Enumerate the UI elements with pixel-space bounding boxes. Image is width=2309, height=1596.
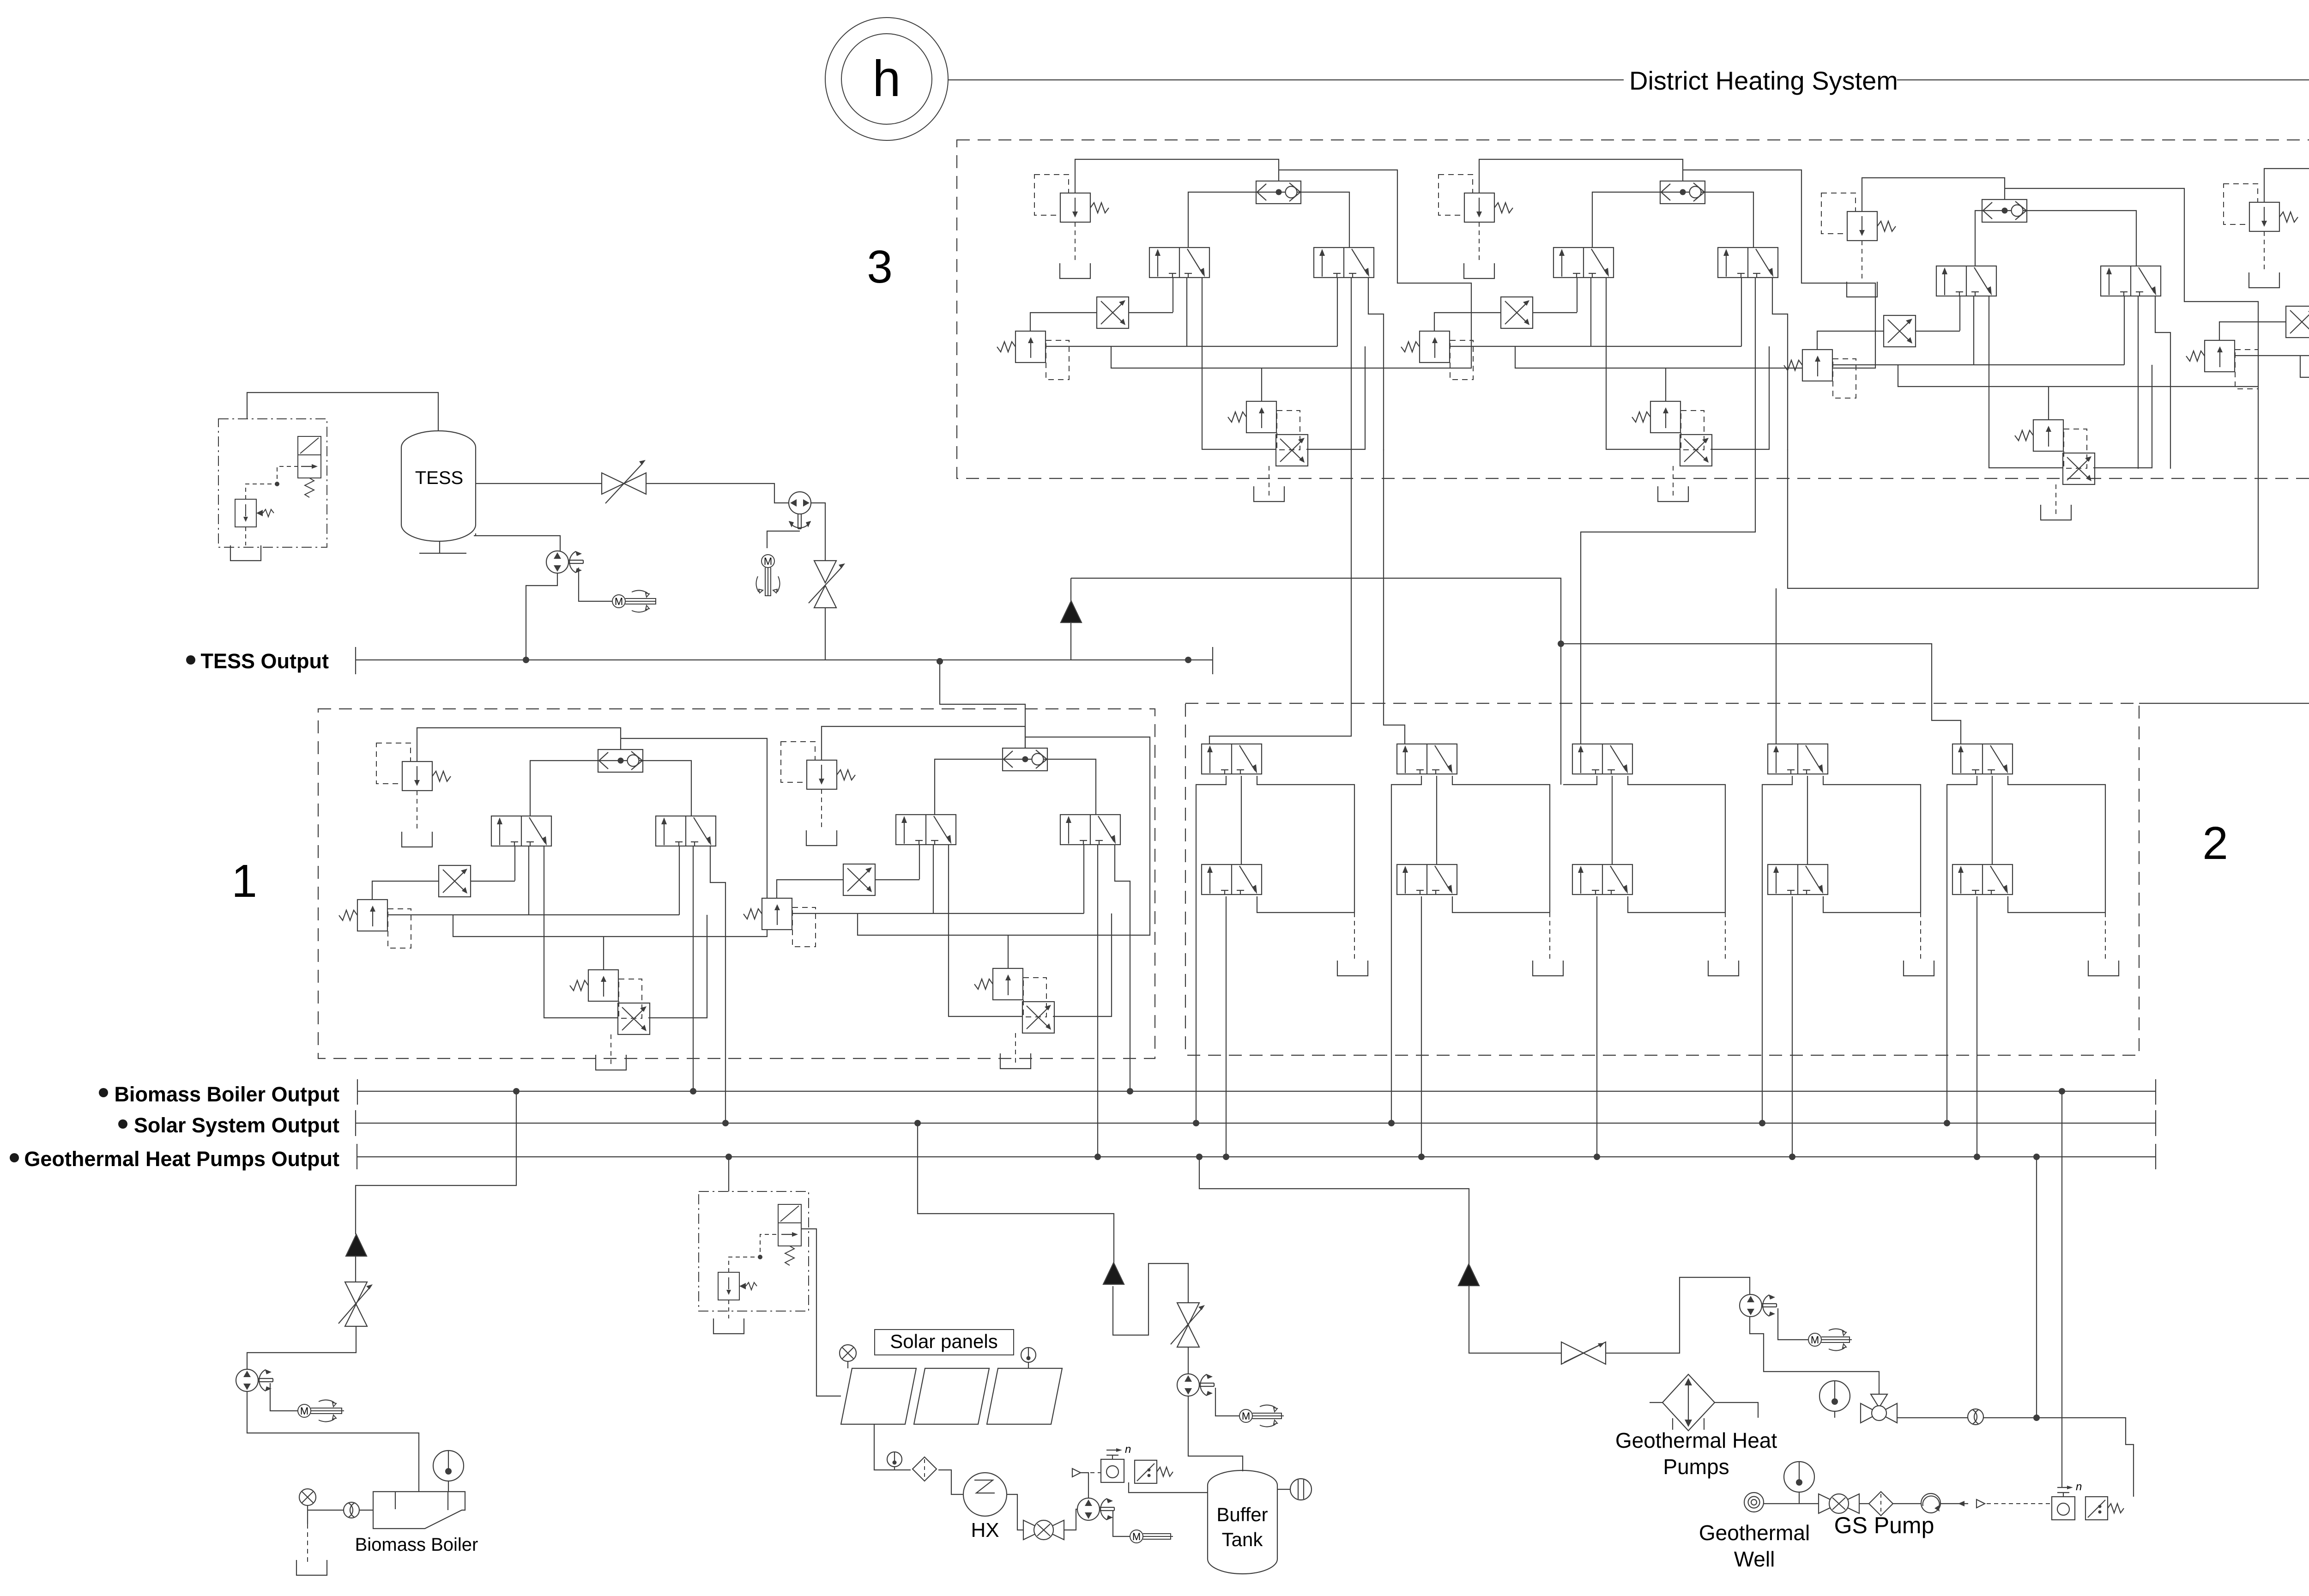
relief valve assembly TESS	[218, 419, 327, 561]
label Biomass Boiler Output	[99, 1088, 108, 1097]
filter GS	[1869, 1492, 1893, 1516]
subsystem box 1	[318, 709, 1155, 1058]
gauge geothermal well	[1784, 1462, 1814, 1492]
svg-text:2: 2	[2202, 817, 2228, 869]
check valve cluster 1.1	[417, 728, 621, 762]
wire biomass boiler output line	[357, 1079, 2156, 1105]
valve pair 2.4	[1768, 744, 1934, 1160]
valve cluster 1.2	[743, 742, 1130, 1069]
tank biomass drain	[307, 1510, 308, 1524]
svg-text:Tank: Tank	[1222, 1529, 1263, 1550]
subsystem box 2	[1185, 703, 2139, 1055]
wire triangle to geo throttle	[1469, 1286, 1561, 1353]
svg-text:Geothermal Heat: Geothermal Heat	[1615, 1428, 1777, 1452]
svg-text:Solar System Output: Solar System Output	[134, 1113, 339, 1137]
wire cluster 3.4 loop	[2300, 179, 2309, 377]
thermometer solar right	[1021, 1348, 1036, 1362]
wire pair2.2 left drop	[1391, 776, 1421, 1123]
wire cluster 1.2 loop	[858, 737, 1150, 935]
wire TESS feed line	[1071, 578, 1561, 785]
wire TESS assembly to TESS tank	[247, 393, 438, 431]
svg-text:TESS Output: TESS Output	[201, 649, 329, 673]
label TESS Output	[186, 655, 195, 665]
valve pair 2.1	[1202, 744, 1368, 1160]
heat exchanger HX	[963, 1473, 1007, 1542]
svg-text:HX: HX	[971, 1519, 999, 1542]
throttle valve TESS	[602, 460, 646, 503]
wire filter to GS pump	[1893, 1503, 1921, 1504]
label Geothermal Heat Pumps Output	[10, 1153, 19, 1162]
flow meter geothermal	[1968, 1409, 1983, 1425]
wire panels to HX	[874, 1424, 963, 1494]
motor M solar	[1113, 1510, 1130, 1536]
spring box GS	[2085, 1497, 2124, 1520]
pump biomass	[236, 1369, 273, 1391]
motor M biomass	[270, 1383, 298, 1411]
wire cluster3.4 drop to box2 corner	[2139, 467, 2309, 703]
pump geothermal	[1740, 1294, 1777, 1317]
wire pump to 3way valve	[1750, 1317, 1879, 1394]
wire pump to vertical throttle	[811, 503, 825, 561]
wire solar assembly to panels	[801, 1229, 841, 1396]
svg-text:TESS: TESS	[415, 468, 463, 488]
wire line2 to solar feed	[918, 1123, 1114, 1263]
wire n-box to buffer tank	[1129, 1482, 1208, 1493]
wire line1 to biomass feed	[356, 1091, 516, 1234]
vessel buffer tank	[1208, 1470, 1277, 1574]
pilot triangle buffer n-box	[1072, 1469, 1081, 1477]
gauge solar	[887, 1452, 902, 1467]
motor M buffer	[1215, 1388, 1240, 1416]
wire globe to solar pump	[1064, 1509, 1077, 1530]
wire buffer throttle	[1171, 1303, 1205, 1347]
pump GS	[1921, 1493, 1940, 1513]
wire pump to boiler	[247, 1392, 419, 1492]
well geothermal	[1744, 1493, 1764, 1512]
pump bidirectional TESS	[789, 492, 811, 529]
svg-text:Buffer: Buffer	[1216, 1504, 1268, 1525]
wire throttle to bidirectional pump	[646, 484, 789, 503]
n-box buffer	[1101, 1443, 1131, 1482]
wire district heating line	[948, 79, 1624, 80]
check valve cluster 1.2	[822, 726, 1025, 760]
wire line y1394 to pair2.5	[1561, 644, 1961, 744]
wire valve to filter	[1859, 1503, 1869, 1504]
valve cluster 3.4	[2186, 184, 2309, 511]
wire TESS Output line	[356, 647, 1213, 674]
svg-text:GS Pump: GS Pump	[1834, 1512, 1934, 1538]
subsystem box 3	[957, 140, 2309, 478]
valve cluster 3.3	[1784, 193, 2170, 520]
wire cluster 3.2 loop	[1515, 170, 1875, 368]
wire cluster1.1 drops	[693, 1019, 694, 1091]
wire line3 to solar relief assembly	[728, 1157, 729, 1191]
svg-text:Biomass Boiler Output: Biomass Boiler Output	[114, 1082, 339, 1106]
wire cluster3.2 to pair2.3	[1581, 449, 1755, 744]
wire pair2.4 left drop	[1762, 776, 1792, 1123]
wire cluster1.2 drops	[1097, 1017, 1098, 1157]
node h: district heating connection point	[825, 18, 948, 140]
wire throttle to buffer pump	[1188, 1347, 1189, 1374]
valve cluster 3.2	[1401, 175, 1788, 502]
valve GS pump line	[1819, 1494, 1859, 1513]
wire solar system output line	[356, 1110, 2156, 1136]
svg-text:1: 1	[231, 855, 257, 907]
wire throttle to geo pump	[1606, 1277, 1750, 1353]
check valve cluster 3.4	[2264, 169, 2309, 202]
wire line1 to GS n-box	[2061, 1091, 2062, 1487]
wire pair2.5 left drop	[1947, 776, 1977, 1123]
black triangle biomass feed	[346, 1234, 367, 1256]
motor M pump TESS	[579, 568, 613, 601]
black triangle TESS line	[1061, 601, 1082, 623]
svg-text:h: h	[872, 50, 901, 107]
check valve cluster 3.2	[1479, 159, 1683, 193]
solar panel 3	[987, 1368, 1062, 1424]
throttle valve biomass	[338, 1282, 373, 1326]
wire throttle to biomass pump	[247, 1326, 356, 1369]
fan circle biomass	[299, 1489, 316, 1505]
wire district heating line right	[1897, 80, 2309, 190]
wire to biomass throttle	[355, 1256, 356, 1282]
filter geothermal heat pumps	[1662, 1374, 1715, 1431]
motor M TESS discharge	[767, 531, 800, 548]
gauge geothermal	[1819, 1381, 1850, 1411]
flow meter biomass	[344, 1502, 359, 1518]
svg-text:Solar panels: Solar panels	[890, 1330, 997, 1352]
svg-text:Well: Well	[1734, 1547, 1775, 1571]
wire HX to globe valve	[1007, 1494, 1023, 1530]
valve cluster 1.1	[339, 743, 725, 1070]
solar panel 1	[841, 1368, 916, 1424]
n-box GS	[2052, 1481, 2082, 1520]
vessel TESS	[401, 431, 476, 553]
pump buffer	[1177, 1374, 1214, 1396]
valve pair 2.5	[1952, 744, 2119, 1160]
valve pair 2.2	[1397, 744, 1563, 1160]
sensor circle solar left	[840, 1345, 856, 1361]
wire TESS to throttle	[476, 483, 602, 484]
wire fan to boiler	[308, 1505, 344, 1510]
3way valve geothermal	[1861, 1394, 1897, 1423]
wire cluster 1.1 loop	[453, 738, 767, 937]
black triangle geothermal feed	[1458, 1264, 1479, 1286]
label box Solar panels	[875, 1330, 1014, 1355]
throttle valve vertical TESS	[809, 561, 845, 608]
wire pair2.1 left drop	[1196, 776, 1226, 1123]
wire line3 to geothermal feed	[1199, 1157, 1469, 1264]
wire pair2.3 left riser from TESS line	[1563, 776, 1597, 785]
black triangle solar feed	[1103, 1263, 1124, 1284]
valve pair 2.3	[1572, 744, 1739, 1160]
wire solar triangle to buffer branch	[1113, 1263, 1188, 1335]
relief valve assembly solar	[699, 1191, 809, 1334]
svg-text:3: 3	[867, 241, 893, 293]
wire geothermal output line	[357, 1144, 2156, 1169]
wire line3 to geo pipe	[2036, 1157, 2037, 1418]
gauge biomass boiler	[433, 1451, 464, 1481]
wire 3way to flow meter	[1897, 1417, 1968, 1418]
filter solar	[913, 1457, 937, 1481]
throttle valve geothermal	[1561, 1342, 1606, 1364]
motor M geothermal	[1778, 1308, 1809, 1340]
wire TESS bottom to pump	[474, 533, 560, 551]
wire well to GS valve	[1764, 1503, 1819, 1504]
wire flow meter to right	[1983, 1418, 2134, 1497]
svg-text:Biomass Boiler: Biomass Boiler	[355, 1535, 478, 1555]
check valve cluster 3.3	[1862, 178, 2005, 212]
wire cluster3.1 to pair2.2	[1384, 449, 1405, 744]
wire cluster 3.3 loop	[1898, 188, 2258, 387]
wire throttle to TESS output	[825, 608, 826, 660]
valve cluster 3.1	[997, 175, 1384, 502]
wire solar pump to n-box	[1081, 1473, 1088, 1498]
wire cluster 3.1 loop	[1111, 170, 1471, 368]
check valve cluster 3.1	[1075, 159, 1279, 193]
wire GS pump to pilot triangle	[1940, 1503, 1968, 1504]
boiler biomass	[373, 1492, 465, 1529]
pump TESS charge	[546, 551, 583, 573]
svg-text:District Heating System: District Heating System	[1629, 66, 1898, 95]
svg-text:Pumps: Pumps	[1663, 1455, 1729, 1479]
wire cluster3.1 to pair2.1	[1209, 449, 1351, 744]
svg-text:Geothermal: Geothermal	[1699, 1521, 1810, 1545]
solar panel 2	[914, 1368, 989, 1424]
spring box buffer	[1135, 1460, 1173, 1483]
wire pump to TESS output line	[526, 573, 557, 660]
wire TESS output to cluster1.2 check	[940, 661, 1025, 749]
wire pump to buffer tank	[1188, 1396, 1243, 1471]
pump solar	[1077, 1498, 1114, 1520]
wire cluster3.2 drop 2 to line 1274	[1788, 387, 2258, 588]
wire to pair2.4	[1776, 588, 1777, 744]
svg-text:Geothermal Heat Pumps Output: Geothermal Heat Pumps Output	[24, 1147, 339, 1171]
label Solar System Output	[118, 1119, 127, 1129]
globe valve solar	[1023, 1520, 1064, 1540]
level indicator buffer	[1277, 1489, 1290, 1490]
